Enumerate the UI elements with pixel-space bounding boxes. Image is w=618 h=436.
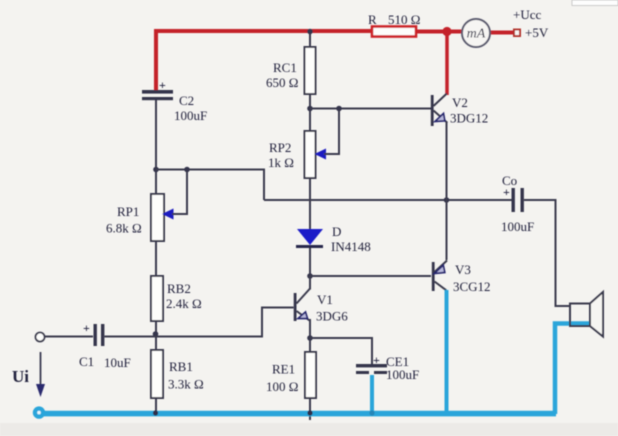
wire: RE1 to ground bus [309,398,311,420]
svg-text:6.8k Ω: 6.8k Ω [106,221,142,236]
transistor V1 3DG6 [294,276,349,324]
svg-text:+: + [159,78,166,92]
resistor RC1 [266,47,316,94]
terminal: input ground (cyan) [33,406,45,418]
svg-text:mA: mA [467,27,486,42]
resistor RB1 [151,350,204,398]
top-right white browser sliver [572,0,618,6]
svg-text:+5V: +5V [525,25,549,40]
label Ui with arrow [12,352,45,397]
wire: RC1 to RP2 [309,94,311,131]
bottom watermark strip [0,423,618,436]
junction: V2 base node [307,106,313,112]
wire: red vertical to V2 collector [445,31,449,95]
svg-text:IN4148: IN4148 [331,239,371,254]
svg-text:3DG6: 3DG6 [316,309,348,324]
wire: red +Ucc bus horizontal [156,29,372,33]
svg-text:3CG12: 3CG12 [453,279,491,294]
svg-text:+: + [373,353,380,367]
resistor RE1 [266,352,316,398]
capacitor Co [501,173,534,234]
svg-text:RE1: RE1 [272,362,295,377]
svg-text:2.4k Ω: 2.4k Ω [166,296,202,311]
svg-text:RP2: RP2 [269,140,291,155]
wire: C1 to V1 base [105,308,294,337]
terminal +5V [514,25,549,40]
junction: node at RP1 top [153,167,159,173]
junction: CE1 at bus [369,410,374,415]
wire: red bus to RC1 [309,31,311,47]
wire: speaker return (cyan) [555,324,590,415]
speaker LS [570,292,603,337]
svg-text:RP1: RP1 [117,204,139,219]
wire: V1 emitter down [309,319,311,352]
capacitor C1 [79,321,131,370]
junction: V1 collector node [307,273,313,279]
wire: RB2 to node [155,321,157,350]
wire: ground bus (cyan) [39,411,556,417]
junction: RE1 at bus [307,410,312,415]
svg-text:10uF: 10uF [104,355,131,370]
svg-text:V3: V3 [455,262,471,277]
wire: C2 bottom to RP1 [155,100,157,194]
wire: red bus from R to meter [416,30,462,34]
svg-text:RB2: RB2 [167,281,191,296]
wire: red from meter to +5V terminal [490,31,514,35]
terminal: input Ui [36,333,45,342]
svg-text:100uF: 100uF [174,108,207,123]
svg-text:100uF: 100uF [386,367,419,382]
resistor RB2 [151,276,202,321]
svg-text:R: R [368,12,377,27]
label +Ucc [513,7,541,22]
wire: RP2 to diode [309,178,311,230]
svg-text:650 Ω: 650 Ω [266,75,298,90]
svg-text:3DG12: 3DG12 [450,111,488,126]
junction: RB1 at bus [153,410,158,415]
svg-text:D: D [332,224,341,239]
svg-text:100uF: 100uF [501,219,534,234]
wire: emitter node to CE1 [310,338,372,364]
svg-text:1k Ω: 1k Ω [268,155,294,170]
transistor V2 3DG12 [431,94,488,127]
resistor R 510 ohm [368,12,420,37]
svg-text:RB1: RB1 [169,359,193,374]
wire: diode to V1 collector node [309,248,311,276]
wire: RP1 to RB2 [155,241,157,276]
svg-text:+: + [83,321,90,335]
wire: V2 base wire [310,108,431,110]
wire: V3 base wire [310,275,431,277]
wire: CE1 to ground bus (cyan) [370,375,374,414]
potentiometer RP2 [268,110,339,178]
svg-text:100 Ω: 100 Ω [266,379,298,394]
svg-text:V1: V1 [317,292,333,307]
junction: red dot at meter branch [442,27,451,36]
wire: red vertical to C2 [154,29,158,90]
capacitor CE1 [356,353,419,382]
svg-text:C1: C1 [79,354,94,369]
capacitor C2 [142,78,207,123]
svg-text:Ui: Ui [12,367,29,386]
wire: output line y=200 [264,199,512,201]
wire: input to C1 [45,336,94,338]
meter mA [462,19,490,47]
svg-text:+Ucc: +Ucc [513,7,541,22]
diode D IN4148 [296,224,371,254]
junction: RP1 wiper tap [184,167,190,173]
junction: output node [444,197,450,203]
svg-text:C2: C2 [179,93,194,108]
potentiometer RP1 [106,171,187,241]
transistor V3 3CG12 [432,261,491,295]
svg-text:Co: Co [502,173,517,188]
svg-text:RC1: RC1 [273,60,297,75]
svg-text:V2: V2 [452,95,468,110]
svg-text:510 Ω: 510 Ω [388,12,420,27]
wire: V3 collector to ground bus (cyan) [445,290,449,414]
junction: V1 emitter node [307,335,313,341]
wire: bootstrap horizontal y=169 [156,170,264,201]
wire: Co to speaker [524,200,570,306]
wire: V2 emitter to output node to V3 emitter [446,122,448,260]
wire: RB1 to ground bus [155,398,157,413]
junction: RC1 at bus [307,29,313,35]
svg-text:3.3k Ω: 3.3k Ω [168,377,204,392]
junction: RP2 wiper tap [336,106,342,112]
junction: base divider node [153,331,159,337]
